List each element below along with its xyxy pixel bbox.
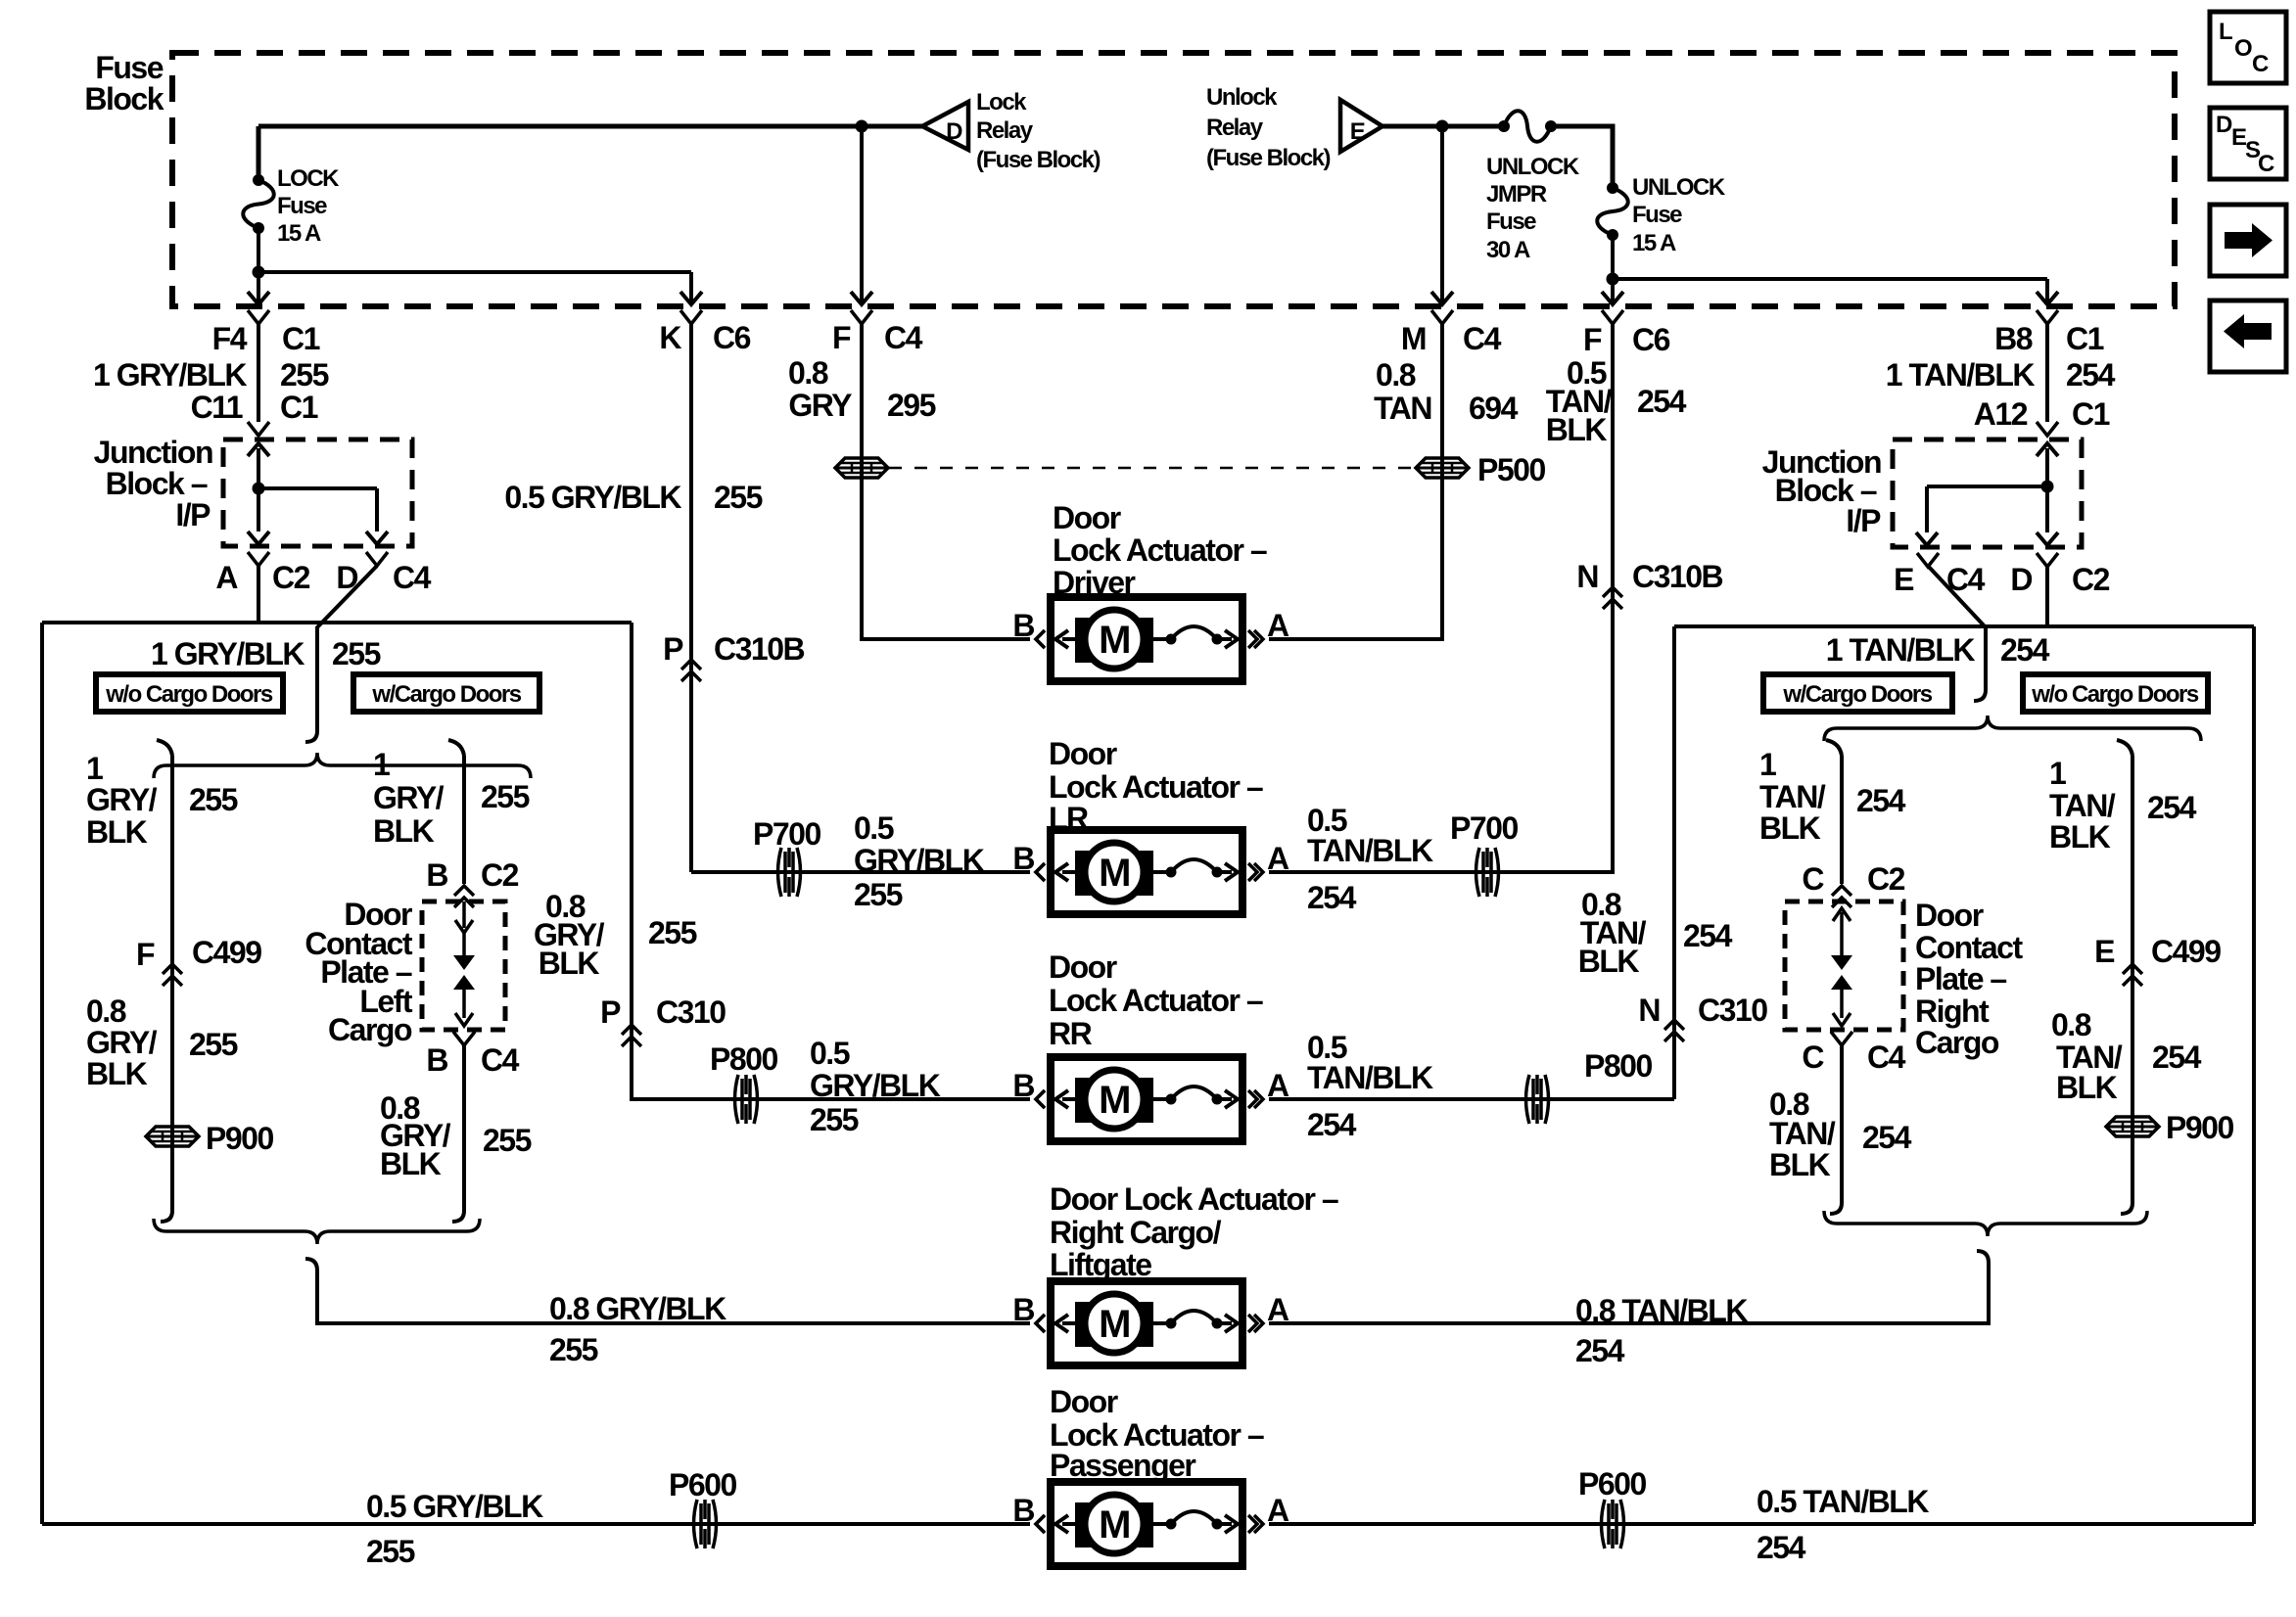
svg-text:C2: C2: [272, 560, 310, 595]
svg-text:TAN: TAN: [1374, 391, 1431, 426]
svg-text:C6: C6: [1632, 322, 1670, 357]
contact plate left internals: [462, 901, 466, 928]
connector forks A C2 D C4: [248, 552, 269, 566]
svg-text:w/o Cargo Doors: w/o Cargo Doors: [105, 681, 273, 708]
svg-text:C2: C2: [481, 857, 519, 893]
svg-text:Lock Actuator –: Lock Actuator –: [1049, 983, 1263, 1018]
svg-text:Block –: Block –: [106, 466, 208, 501]
hook right feed: [1974, 690, 1986, 701]
svg-text:1: 1: [1759, 747, 1776, 782]
contact arc: [1153, 1097, 1169, 1101]
svg-text:M: M: [1099, 1303, 1130, 1346]
P500 dashed link: [889, 467, 1415, 470]
wire M C4 drop: [1440, 126, 1444, 302]
svg-text:254: 254: [1856, 783, 1906, 818]
fuse block dashed border: [172, 53, 2175, 306]
svg-text:GRY/: GRY/: [86, 782, 158, 817]
svg-text:BLK: BLK: [86, 814, 148, 850]
svg-text:w/Cargo Doors: w/Cargo Doors: [371, 681, 521, 708]
svg-text:BLK: BLK: [373, 813, 435, 849]
svg-text:L: L: [2219, 19, 2232, 45]
svg-text:C1: C1: [2066, 321, 2104, 356]
svg-text:C310B: C310B: [1632, 559, 1723, 594]
contact arc: [1153, 1522, 1169, 1526]
svg-text:E: E: [1350, 118, 1366, 145]
svg-text:C4: C4: [481, 1042, 520, 1078]
svg-text:0.8: 0.8: [1376, 357, 1416, 393]
svg-text:Door: Door: [1915, 898, 1984, 933]
svg-text:Contact: Contact: [1915, 930, 2023, 965]
wire sub branch 176: [170, 756, 174, 1202]
hook below right bottom brace: [1977, 1251, 1989, 1263]
wire left loop top: [42, 621, 632, 624]
svg-text:A: A: [1267, 1292, 1289, 1327]
svg-text:GRY/: GRY/: [86, 1025, 158, 1060]
terminal chevrons: [1036, 1315, 1045, 1332]
svg-text:E: E: [2094, 934, 2115, 969]
wire passenger B bottom: [42, 1522, 1030, 1526]
nav box arrow left: [2210, 300, 2286, 372]
brace left top: [154, 753, 531, 778]
svg-text:Cargo: Cargo: [1915, 1025, 1999, 1060]
svg-text:TAN/: TAN/: [1759, 779, 1826, 814]
svg-text:GRY/: GRY/: [373, 780, 445, 815]
chevron liftgate A: [1254, 1315, 1263, 1332]
motor circle M: [1085, 1070, 1144, 1129]
motor brushes: [1075, 851, 1153, 896]
svg-text:Plate –: Plate –: [1915, 961, 2006, 996]
connector E C499: [2123, 964, 2142, 974]
svg-text:254: 254: [1683, 918, 1733, 953]
svg-text:295: 295: [887, 388, 936, 423]
svg-text:P: P: [663, 631, 683, 667]
svg-text:15 A: 15 A: [277, 220, 321, 247]
svg-text:A: A: [1267, 608, 1289, 643]
svg-text:C6: C6: [713, 320, 751, 355]
svg-text:E: E: [1894, 562, 1914, 597]
hook sub right 1881: [1826, 740, 1842, 756]
svg-text:Lock Actuator –: Lock Actuator –: [1053, 532, 1267, 568]
svg-text:1: 1: [373, 747, 390, 782]
svg-text:C: C: [2252, 51, 2269, 77]
svg-text:0.8 TAN/BLK: 0.8 TAN/BLK: [1575, 1293, 1748, 1328]
svg-text:C: C: [1802, 861, 1824, 897]
wire sub branch 474: [462, 756, 466, 884]
svg-text:B8: B8: [1994, 321, 2033, 356]
contact arc: [1153, 637, 1169, 641]
svg-text:Block: Block: [84, 81, 164, 116]
wire E C4 diagonal: [1928, 566, 1986, 690]
motor brushes: [1075, 1302, 1153, 1347]
connector forks E C4 D C2: [1917, 553, 1939, 567]
actuator box: [1051, 1281, 1242, 1365]
brace left bottom: [154, 1219, 480, 1244]
svg-text:Door: Door: [1049, 736, 1117, 771]
motor circle M: [1085, 610, 1144, 669]
svg-text:B: B: [1012, 1493, 1034, 1528]
svg-text:M: M: [1099, 852, 1130, 895]
svg-text:C: C: [1802, 1039, 1824, 1075]
svg-text:B: B: [1012, 841, 1034, 876]
splice P800 left: [735, 1075, 739, 1124]
svg-text:D: D: [2010, 562, 2032, 597]
svg-text:254: 254: [2147, 790, 2197, 825]
svg-text:(Fuse Block): (Fuse Block): [976, 147, 1101, 173]
connector fork x=1647: [1602, 310, 1623, 324]
svg-text:P500: P500: [1477, 452, 1545, 487]
svg-text:Fuse: Fuse: [1486, 208, 1536, 235]
connector fork x=2091: [2037, 310, 2058, 324]
svg-text:C499: C499: [2151, 934, 2221, 969]
chevron driver A: [1254, 630, 1263, 648]
svg-text:C4: C4: [1867, 1039, 1906, 1075]
svg-text:Fuse: Fuse: [95, 50, 163, 85]
svg-text:BLK: BLK: [1546, 412, 1608, 447]
connector fork x=264: [248, 310, 269, 324]
curl bottom sub2178: [2121, 1196, 2132, 1214]
svg-text:0.8 GRY/BLK: 0.8 GRY/BLK: [549, 1291, 726, 1326]
svg-text:255: 255: [189, 782, 238, 817]
splice P500 right: [1416, 458, 1469, 478]
motor brushes: [1075, 1078, 1153, 1123]
svg-text:BLK: BLK: [86, 1056, 148, 1091]
svg-text:255: 255: [483, 1123, 532, 1158]
svg-text:254: 254: [2152, 1039, 2202, 1075]
actuator box: [1051, 597, 1242, 681]
svg-text:15 A: 15 A: [1632, 230, 1676, 256]
wire C11 to junction block: [257, 324, 260, 422]
svg-text:Passenger: Passenger: [1050, 1448, 1195, 1483]
svg-text:1 GRY/BLK: 1 GRY/BLK: [151, 636, 305, 671]
svg-text:B: B: [1012, 608, 1034, 643]
svg-text:Lock: Lock: [976, 89, 1027, 115]
svg-text:LOCK: LOCK: [277, 165, 340, 192]
motor lead arrow: [1062, 1522, 1075, 1526]
connector fork x=1473: [1431, 310, 1453, 324]
wire left outer vertical: [40, 623, 44, 1524]
svg-text:255: 255: [366, 1534, 415, 1569]
wire RR A to right riser: [1269, 1097, 1674, 1101]
wire A12 to junction block: [2045, 324, 2049, 422]
terminal chevrons: [1036, 1090, 1045, 1108]
svg-text:B: B: [1012, 1292, 1034, 1327]
nav box DESC: [2210, 108, 2286, 179]
svg-text:1 TAN/BLK: 1 TAN/BLK: [1826, 632, 1976, 668]
svg-text:TAN/: TAN/: [2049, 788, 2116, 823]
relay E Unlock Relay: [1340, 100, 1382, 152]
svg-text:B: B: [426, 1042, 447, 1078]
hook sub left 176: [157, 740, 172, 756]
svg-text:C11: C11: [191, 390, 243, 425]
curl bottom sub1881: [1830, 1196, 1842, 1214]
chevron LR B: [1036, 863, 1045, 881]
svg-text:0.8: 0.8: [788, 355, 828, 391]
svg-text:M: M: [1099, 619, 1130, 662]
svg-text:F: F: [832, 320, 851, 355]
splice P800 right: [1526, 1075, 1530, 1124]
wire M C4 down to driver A: [1269, 324, 1442, 639]
svg-text:C310B: C310B: [714, 631, 805, 667]
svg-text:UNLOCK: UNLOCK: [1486, 154, 1580, 180]
svg-text:P: P: [600, 994, 621, 1030]
chevron passenger B: [1036, 1515, 1045, 1533]
connector fork x=706: [680, 310, 702, 324]
wire B8 drop: [2045, 279, 2049, 302]
actuator box: [1051, 830, 1242, 914]
wire left inner vertical to RR B: [632, 623, 1030, 1099]
svg-text:254: 254: [2066, 357, 2116, 393]
fuse UNLOCK 15A: [1607, 182, 1618, 194]
motor circle M: [1085, 1294, 1144, 1353]
svg-text:Liftgate: Liftgate: [1050, 1247, 1151, 1282]
wire below unlock fuse: [1611, 235, 1615, 279]
junction block left internals: [257, 448, 260, 488]
svg-text:RR: RR: [1049, 1016, 1093, 1051]
actuator box: [1051, 1482, 1242, 1566]
option box w/Cargo Doors left: [353, 674, 539, 712]
svg-text:B: B: [426, 857, 447, 893]
svg-text:254: 254: [1862, 1120, 1912, 1155]
svg-text:255: 255: [280, 357, 329, 393]
svg-text:JMPR: JMPR: [1486, 181, 1547, 208]
wire unlock feed to B8: [1613, 277, 2047, 281]
motor lead arrow: [1062, 870, 1075, 874]
svg-text:255: 255: [810, 1102, 859, 1137]
chevron liftgate B: [1036, 1315, 1045, 1332]
svg-text:Right: Right: [1915, 993, 1990, 1029]
splice P900 right: [2106, 1117, 2159, 1136]
svg-text:GRY: GRY: [788, 388, 852, 423]
splice P500 left: [835, 458, 888, 478]
svg-text:255: 255: [549, 1332, 598, 1367]
motor lead arrow: [1062, 637, 1075, 641]
svg-text:0.8: 0.8: [2051, 1007, 2091, 1042]
wire A C2 down: [257, 566, 260, 623]
svg-text:TAN/BLK: TAN/BLK: [1307, 1060, 1433, 1095]
svg-text:P700: P700: [1450, 810, 1518, 846]
wire right riser: [1672, 626, 1676, 1099]
junction block right internals: [2045, 448, 2049, 486]
option box w/o Cargo Doors left: [96, 674, 283, 712]
svg-text:1 GRY/BLK: 1 GRY/BLK: [93, 357, 247, 393]
fork below plate left: [453, 1032, 475, 1045]
hook sub left 474: [448, 740, 464, 756]
motor brushes: [1075, 1502, 1153, 1548]
svg-text:M: M: [1401, 321, 1426, 356]
connector N C310: [1664, 1020, 1684, 1030]
svg-text:A: A: [1267, 1493, 1289, 1528]
wire passenger A bottom: [1269, 1522, 2254, 1526]
wire F C4 drop: [860, 126, 864, 302]
svg-text:C310: C310: [1698, 993, 1767, 1028]
svg-text:F4: F4: [212, 321, 248, 356]
svg-text:255: 255: [332, 636, 381, 671]
node lock fuse junction: [253, 266, 265, 279]
svg-text:Relay: Relay: [976, 117, 1034, 144]
svg-text:0.5 GRY/BLK: 0.5 GRY/BLK: [504, 480, 681, 515]
splice P900 left: [146, 1127, 199, 1146]
connector P C310: [622, 1025, 641, 1035]
svg-text:K: K: [659, 320, 681, 355]
svg-text:BLK: BLK: [1769, 1147, 1831, 1182]
svg-text:A: A: [1267, 841, 1289, 876]
svg-text:C1: C1: [2072, 396, 2110, 432]
svg-text:C: C: [2258, 151, 2274, 177]
svg-text:694: 694: [1469, 391, 1519, 426]
wire right loop top: [1674, 624, 2254, 628]
wire lock fuse stem: [257, 126, 261, 180]
svg-text:1: 1: [2049, 756, 2066, 791]
motor lead arrow: [1062, 1321, 1075, 1325]
hook below left bottom brace: [305, 1259, 317, 1270]
chevron LR A: [1254, 863, 1263, 881]
bus wire feed: [258, 124, 922, 129]
connector B C2: [454, 886, 474, 896]
curl bottom sub474: [452, 1202, 464, 1222]
svg-text:C2: C2: [2072, 562, 2110, 597]
svg-text:P900: P900: [2166, 1110, 2233, 1145]
svg-text:C1: C1: [280, 390, 318, 425]
svg-text:TAN/BLK: TAN/BLK: [1307, 833, 1433, 868]
svg-text:1 TAN/BLK: 1 TAN/BLK: [1886, 357, 2036, 393]
node bus at F C4: [856, 120, 868, 133]
fork below plate right: [1831, 1032, 1852, 1045]
node unlock fuse junction: [1607, 273, 1619, 286]
wire F4 drop: [257, 272, 260, 302]
svg-text:255: 255: [481, 779, 530, 814]
motor brushes: [1075, 618, 1153, 663]
wire F C4 down to driver B: [862, 324, 1030, 639]
actuator box: [1051, 1057, 1242, 1141]
svg-text:Lock Actuator –: Lock Actuator –: [1049, 769, 1263, 805]
nav box arrow right: [2210, 205, 2286, 276]
svg-text:w/o Cargo Doors: w/o Cargo Doors: [2031, 681, 2199, 708]
fuse UNLOCK JMPR 30A: [1498, 120, 1510, 132]
svg-text:N: N: [1638, 993, 1660, 1028]
wire F C6 drop: [1611, 279, 1615, 302]
svg-text:UNLOCK: UNLOCK: [1632, 174, 1726, 201]
fuse LOCK 15A: [253, 174, 264, 186]
contact arc: [1153, 870, 1169, 874]
svg-text:C1: C1: [282, 321, 320, 356]
motor lead arrow: [1062, 1097, 1075, 1101]
svg-text:C4: C4: [393, 560, 432, 595]
svg-text:F: F: [136, 937, 155, 972]
svg-text:BLK: BLK: [2049, 819, 2111, 855]
svg-text:Fuse: Fuse: [277, 193, 327, 219]
chevron driver B: [1036, 630, 1045, 648]
chevron passenger A: [1254, 1515, 1263, 1533]
svg-text:Unlock: Unlock: [1206, 84, 1278, 111]
svg-text:C4: C4: [884, 320, 923, 355]
brace right top: [1824, 716, 2201, 741]
splice P700 right: [1476, 848, 1480, 897]
door contact plate left dashed box: [422, 901, 505, 1030]
wire D C2 down: [2045, 566, 2049, 626]
svg-text:I/P: I/P: [175, 497, 211, 532]
svg-text:BLK: BLK: [1578, 944, 1640, 979]
svg-text:w/Cargo Doors: w/Cargo Doors: [1782, 681, 1932, 708]
terminal chevrons: [1036, 630, 1045, 648]
svg-text:P800: P800: [1584, 1048, 1652, 1084]
brace right bottom: [1824, 1211, 2147, 1236]
svg-text:0.5: 0.5: [854, 810, 894, 846]
wire K C6 drop: [689, 272, 693, 302]
svg-text:255: 255: [189, 1027, 238, 1062]
svg-text:A: A: [1267, 1068, 1289, 1103]
nav box LOC: [2210, 12, 2286, 83]
svg-text:F: F: [1583, 322, 1602, 357]
svg-text:Relay: Relay: [1206, 115, 1264, 141]
svg-text:P800: P800: [710, 1041, 777, 1077]
svg-text:(Fuse Block): (Fuse Block): [1206, 145, 1331, 171]
svg-text:Junction: Junction: [94, 435, 212, 470]
svg-text:0.5 TAN/BLK: 0.5 TAN/BLK: [1757, 1484, 1929, 1519]
svg-text:Door: Door: [1050, 1384, 1118, 1419]
svg-text:254: 254: [2000, 632, 2050, 668]
svg-text:BLK: BLK: [380, 1146, 442, 1181]
svg-text:M: M: [1099, 1079, 1130, 1122]
svg-text:Door: Door: [1053, 500, 1121, 535]
svg-text:C499: C499: [192, 935, 261, 970]
connector fork x=880: [851, 310, 872, 324]
svg-text:GRY/BLK: GRY/BLK: [854, 843, 985, 878]
svg-text:0.5: 0.5: [810, 1036, 850, 1071]
svg-text:B: B: [1012, 1068, 1034, 1103]
junction block IP left dashed box: [223, 439, 412, 546]
svg-text:Door: Door: [1049, 949, 1117, 985]
svg-text:254: 254: [1637, 384, 1687, 419]
svg-text:BLK: BLK: [539, 946, 600, 981]
curl bottom sub176: [161, 1202, 172, 1222]
motor circle M: [1085, 1495, 1144, 1553]
svg-text:254: 254: [1757, 1530, 1806, 1565]
wire D C4 diagonal: [317, 566, 377, 731]
svg-text:1: 1: [86, 751, 103, 786]
junction block IP right dashed box: [1893, 439, 2082, 547]
hook sub right 2178: [2117, 740, 2132, 756]
svg-text:255: 255: [714, 480, 763, 515]
wire to liftgate B: [317, 1270, 1030, 1323]
connector N C310B: [1603, 587, 1622, 597]
bus jmpr fuse to unlock fuse: [1551, 126, 1613, 188]
svg-text:M: M: [1099, 1503, 1130, 1547]
svg-text:GRY/BLK: GRY/BLK: [810, 1068, 941, 1103]
svg-text:255: 255: [648, 915, 697, 950]
splice P700 left: [778, 848, 782, 897]
splice P600 right: [1602, 1500, 1606, 1548]
wire to liftgate A: [1269, 1263, 1989, 1323]
splice P600 left: [694, 1500, 698, 1548]
svg-text:D: D: [946, 118, 962, 145]
svg-text:P700: P700: [753, 816, 820, 852]
connector F C499: [163, 964, 182, 974]
svg-text:BLK: BLK: [2056, 1070, 2118, 1105]
svg-text:254: 254: [1307, 880, 1357, 915]
wire right outer vertical: [2252, 626, 2256, 1524]
svg-text:C4: C4: [1463, 321, 1502, 356]
node bus at M C4: [1436, 120, 1449, 133]
bus unlock relay to jmpr fuse: [1382, 124, 1504, 129]
motor circle M: [1085, 843, 1144, 901]
svg-text:255: 255: [854, 877, 903, 912]
contact plate right internals: [1840, 912, 1844, 930]
chevron RR B: [1036, 1090, 1045, 1108]
wire lock feed to K C6: [258, 270, 691, 274]
svg-text:I/P: I/P: [1846, 503, 1881, 538]
svg-text:P600: P600: [1578, 1466, 1646, 1501]
svg-text:254: 254: [1575, 1333, 1625, 1368]
